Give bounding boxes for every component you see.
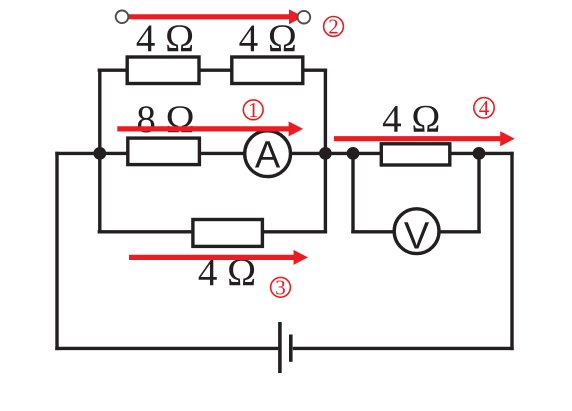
wire: inner middle vertical branch — [324, 69, 327, 234]
current arrow 4 — [334, 131, 515, 146]
svg-text:1: 1 — [248, 98, 259, 122]
resistor 4ohm bottom — [193, 220, 263, 247]
wire: outer loop bottom left segment — [55, 347, 278, 350]
label circled 1 — [243, 98, 263, 122]
wire: voltmeter branch left vertical — [351, 153, 354, 233]
terminal circle right — [298, 11, 311, 24]
resistor 4ohm right — [381, 144, 450, 165]
svg-text:V: V — [404, 216, 430, 258]
resistor 4ohm top-right — [232, 57, 303, 84]
wire: outer loop bottom right segment — [293, 347, 514, 350]
wire: voltmeter branch right vertical — [477, 153, 480, 233]
wire: middle rail — [55, 152, 513, 155]
node junction voltmeter-left — [347, 147, 360, 160]
svg-text:4 Ω: 4 Ω — [136, 17, 194, 60]
wire: outer loop right vertical — [510, 152, 513, 350]
voltmeter V — [394, 209, 439, 258]
ammeter A — [245, 131, 291, 177]
wire: inner left vertical branch — [98, 69, 101, 234]
node junction left — [93, 147, 106, 160]
label circled 2 — [324, 14, 344, 38]
current arrow 3 — [129, 250, 308, 265]
current arrow 2 — [127, 9, 303, 24]
battery — [280, 322, 291, 373]
svg-text:3: 3 — [275, 275, 286, 299]
current arrow 1 — [117, 121, 303, 136]
wire: top parallel branch horizontal — [98, 68, 328, 71]
label circled 3 — [271, 275, 291, 299]
node junction voltmeter-right — [473, 147, 486, 160]
terminal circle left — [116, 10, 129, 23]
wire: outer loop left vertical — [55, 152, 58, 350]
svg-text:8 Ω: 8 Ω — [136, 98, 194, 141]
svg-text:4 Ω: 4 Ω — [239, 17, 297, 60]
node junction middle — [319, 147, 332, 160]
svg-text:4: 4 — [479, 96, 490, 120]
resistor 4ohm top-left — [127, 57, 199, 84]
wire: voltmeter branch bottom horizontal — [351, 230, 480, 233]
wire: bottom parallel branch horizontal — [98, 230, 328, 233]
svg-text:A: A — [255, 134, 281, 176]
svg-text:2: 2 — [328, 14, 339, 38]
svg-text:4 Ω: 4 Ω — [382, 98, 440, 141]
resistor 8ohm — [128, 138, 200, 165]
label circled 4 — [474, 96, 494, 120]
